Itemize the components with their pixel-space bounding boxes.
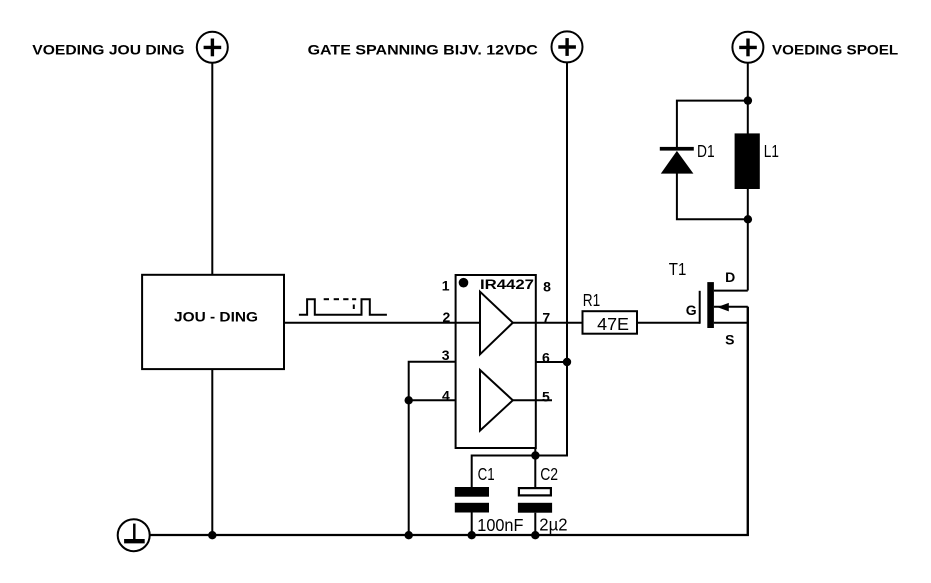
svg-text:1: 1: [442, 278, 450, 294]
capacitor C1: [455, 487, 489, 513]
wire buffer A output to pin 7: [513, 322, 536, 324]
gate electrode line: [699, 291, 701, 324]
transistor Q1/T1 MOSFET: [700, 282, 748, 328]
pulse waveform symbol: [299, 299, 387, 315]
junction C1 ground: [468, 531, 476, 539]
svg-text:T1: T1: [669, 259, 687, 279]
wire U1 pin 4: [409, 399, 480, 401]
svg-text:S: S: [725, 332, 734, 348]
svg-text:L1: L1: [764, 141, 779, 161]
wire R1 to gate: [637, 322, 700, 324]
svg-text:D1: D1: [697, 141, 715, 161]
junction C2 riser / cap rail: [531, 451, 539, 459]
channel bar: [707, 282, 714, 328]
wire source down to ground rail: [747, 307, 749, 536]
svg-text:3: 3: [442, 347, 450, 363]
wire JOU-DING output to U1 pin 2: [284, 322, 456, 324]
junction JOU-DING ground: [208, 531, 216, 539]
svg-text:VOEDING SPOEL: VOEDING SPOEL: [772, 43, 898, 58]
wire buffer B output pin 5 stub: [513, 399, 552, 401]
wire C1 bottom to ground rail: [471, 513, 473, 536]
op-amp U1 IR4427 box: [456, 275, 536, 448]
junction bottom of D1/L1: [744, 215, 752, 223]
junction C2 ground: [531, 531, 539, 539]
svg-text:100nF: 100nF: [477, 515, 523, 535]
wire supply B down, capacitor rail, C1 riser: [472, 62, 567, 487]
wire supply C down to drain: [747, 63, 749, 291]
svg-text:4: 4: [442, 387, 450, 403]
junction pin 6 / supply B: [563, 358, 571, 366]
body lead with arrow: [714, 306, 748, 308]
svg-text:D: D: [725, 269, 735, 285]
resistor R1 body: [583, 311, 638, 334]
svg-text:5: 5: [542, 388, 550, 404]
wire U1 pin 3 to ground drop: [409, 362, 456, 536]
wire pin 7 to R1: [536, 322, 583, 324]
junction top of D1/L1: [744, 96, 752, 104]
buffer A triangle: [480, 292, 513, 355]
svg-text:C2: C2: [540, 464, 558, 484]
svg-text:VOEDING JOU DING: VOEDING JOU DING: [32, 43, 184, 58]
svg-text:6: 6: [542, 350, 550, 366]
svg-text:IR4427: IR4427: [480, 277, 534, 292]
inductor L1 (solid bar): [735, 133, 760, 189]
wire JOU-DING box bottom to ground rail: [211, 369, 213, 535]
block JOU-DING (pulse source): [142, 275, 284, 369]
power symbol +V supply B (gate voltage): [552, 31, 583, 62]
ground symbol: [118, 519, 150, 551]
buffer B triangle: [480, 370, 513, 431]
source lead: [714, 322, 748, 324]
wire D1 anode to bottom: [677, 173, 748, 219]
svg-text:C1: C1: [478, 464, 495, 484]
wire ground rail from MOSFET source: [150, 307, 748, 535]
svg-text:GATE SPANNING BIJV. 12VDC: GATE SPANNING BIJV. 12VDC: [308, 43, 538, 58]
wire supply A to JOU-DING box: [211, 63, 213, 275]
wire pin2 to buffer A input: [456, 322, 480, 324]
svg-text:47E: 47E: [597, 314, 629, 334]
svg-text:2: 2: [443, 309, 451, 325]
wire pin 6 to supply line: [536, 361, 567, 363]
power symbol +V supply A (VOEDING JOU DING): [197, 32, 228, 63]
junction pin4 / pin3 drop: [405, 396, 413, 404]
junction pin3 drop at ground rail: [405, 531, 413, 539]
wire top to D1 cathode: [677, 101, 748, 147]
svg-text:8: 8: [543, 279, 551, 295]
wire C2 top riser from U1 box corner: [534, 448, 536, 488]
capacitor C2 (polarized): [518, 488, 552, 513]
svg-text:2µ2: 2µ2: [539, 515, 567, 535]
power symbol +V supply C (coil supply): [732, 32, 763, 63]
svg-text:G: G: [686, 302, 697, 318]
svg-text:JOU - DING: JOU - DING: [174, 310, 258, 325]
diode D1: [660, 147, 694, 174]
wire C2 bottom to ground rail: [534, 513, 536, 536]
svg-text:R1: R1: [583, 290, 600, 310]
U1 pin-1 marker dot: [459, 278, 469, 288]
drain lead: [714, 290, 748, 292]
